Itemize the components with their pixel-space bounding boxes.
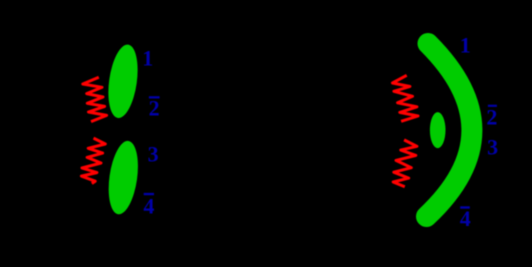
label 4bar (left) (143, 193, 154, 219)
svg-text:2: 2 (486, 104, 497, 129)
photon zigzag line (right diagram, upper) (393, 75, 419, 121)
svg-text:3: 3 (148, 141, 159, 166)
photon zigzag line (left diagram, upper) (83, 77, 107, 121)
svg-text:1: 1 (460, 32, 471, 57)
photon zigzag line (right diagram, lower) (393, 140, 417, 187)
svg-text:4: 4 (460, 206, 471, 231)
label 2bar (left) (149, 95, 160, 120)
crescent blob (right diagram) (427, 44, 472, 217)
blob ellipse (left diagram, lower) (104, 139, 142, 216)
svg-text:4: 4 (143, 194, 154, 219)
svg-text:2: 2 (149, 95, 160, 120)
blob ellipse (left diagram, upper) (104, 43, 142, 120)
label 2bar (right) (486, 104, 497, 129)
label 4bar (right) (460, 206, 471, 231)
photon zigzag line (left diagram, lower) (81, 138, 105, 183)
svg-text:1: 1 (142, 46, 153, 71)
small blob ellipse (right diagram) (430, 112, 446, 148)
svg-text:3: 3 (487, 135, 498, 160)
